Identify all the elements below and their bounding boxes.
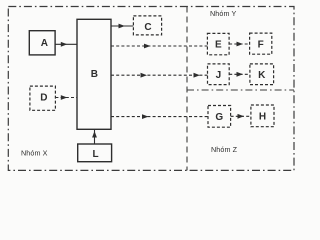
block K: [250, 64, 274, 85]
svg-text:L: L: [93, 149, 99, 160]
wire L to B vertical with up arrow: [92, 129, 97, 144]
svg-text:Nhóm Y: Nhóm Y: [210, 9, 237, 18]
svg-text:C: C: [144, 22, 151, 33]
svg-text:G: G: [215, 112, 223, 123]
svg-text:J: J: [216, 70, 222, 81]
block C: [133, 16, 161, 35]
block B: [77, 19, 111, 129]
wire B to J dashed with two arrows: [111, 73, 208, 78]
svg-text:Nhóm Z: Nhóm Z: [211, 145, 238, 154]
block J: [208, 64, 230, 85]
block L: [78, 144, 112, 162]
outer dash-dot frame: [8, 7, 294, 171]
svg-text:K: K: [258, 70, 266, 81]
block E: [207, 33, 229, 54]
block D: [30, 86, 56, 110]
block A: [29, 31, 55, 55]
block F: [250, 33, 272, 54]
wire B to G dashed with arrow: [111, 114, 208, 119]
wire B to C with arrow: [111, 24, 133, 29]
wire E to F dashed with arrow: [229, 42, 250, 47]
wire D to B dashed with arrow: [55, 95, 77, 100]
block G: [208, 106, 231, 128]
block H: [251, 105, 274, 127]
svg-text:E: E: [215, 40, 222, 51]
svg-text:A: A: [41, 38, 48, 49]
wire J to K dashed with arrow: [229, 72, 250, 77]
wire A to B with arrow: [55, 42, 77, 47]
svg-text:Nhóm X: Nhóm X: [21, 149, 48, 158]
svg-text:B: B: [91, 69, 98, 80]
svg-text:F: F: [258, 39, 264, 50]
svg-text:D: D: [40, 93, 47, 104]
wire G to H dashed with arrow: [231, 114, 251, 119]
wire B to E dashed with arrow: [111, 44, 207, 49]
divider between Nhom Y and Nhom Z: [187, 89, 294, 91]
svg-text:H: H: [259, 112, 266, 123]
divider between Nhom X and Nhom Y/Z: [186, 7, 188, 171]
